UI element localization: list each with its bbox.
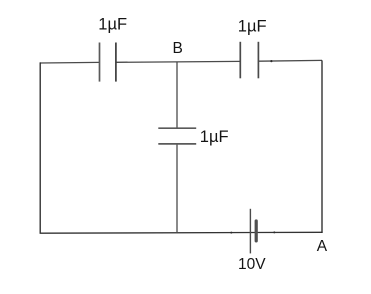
wire top-middle segment xyxy=(116,60,240,63)
label 1µF (C1) xyxy=(98,16,127,34)
svg-text:B: B xyxy=(173,40,183,57)
capacitor C1 xyxy=(100,43,116,82)
wire top-left segment xyxy=(40,61,99,64)
wire left side xyxy=(39,62,41,233)
capacitor C2 xyxy=(240,42,258,79)
node B xyxy=(173,40,183,57)
svg-text:1µF: 1µF xyxy=(98,16,127,34)
label 10V xyxy=(238,256,266,273)
label 1µF (C2) xyxy=(238,18,267,36)
wire top-right segment xyxy=(258,59,322,62)
junction dot bottom wire right of battery xyxy=(273,231,275,233)
svg-text:A: A xyxy=(317,238,328,255)
svg-text:1µF: 1µF xyxy=(200,128,229,146)
capacitor C3 xyxy=(158,128,196,144)
battery V1 xyxy=(250,209,256,254)
wire middle lower (C3 to bottom) xyxy=(176,144,178,233)
label 1µF (C3) xyxy=(200,128,229,146)
junction dot bottom wire left of battery xyxy=(230,232,232,234)
node A xyxy=(317,238,328,255)
svg-text:10V: 10V xyxy=(238,256,266,273)
junction dot on top wire xyxy=(270,60,272,62)
svg-text:1µF: 1µF xyxy=(238,18,267,36)
wire bottom segment xyxy=(40,231,323,234)
wire right side xyxy=(321,60,323,233)
wire middle upper (node B to C3) xyxy=(176,62,178,128)
